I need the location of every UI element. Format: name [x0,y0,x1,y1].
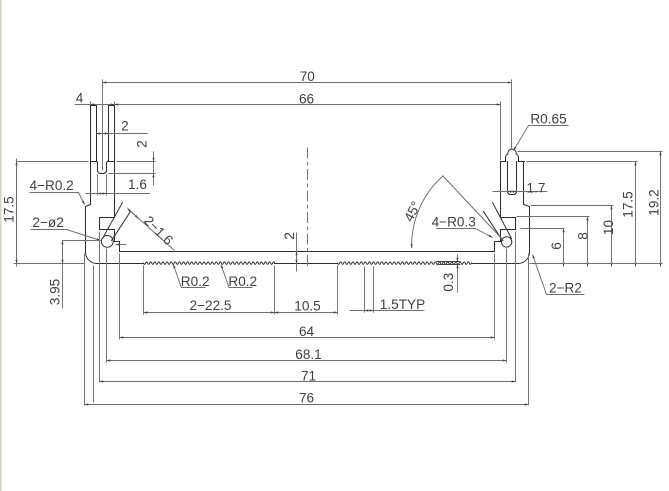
bottom outer edge right flat [472,263,518,265]
dimension 17.5 left line [16,159,18,267]
dimension 19.2 extension line [518,151,663,153]
bottom outer edge left flat [97,263,144,265]
left 45deg slot wall A [103,203,123,239]
svg-text:2−1.6: 2−1.6 [141,213,176,248]
dimension 2 pocket depth extension lines [109,162,156,174]
dimension 2-1.6 diagonal line with arrows [128,209,175,251]
right wall notch [501,218,516,241]
dimension 76 line [85,404,529,406]
left tongue top edge and screw slot [91,106,115,174]
leader 2-dia2 [31,230,101,241]
svg-text:8: 8 [576,232,591,240]
right 45deg slot wall B [484,212,503,241]
right 45deg slot wall A [493,203,512,239]
svg-text:2−22.5: 2−22.5 [190,298,232,313]
right screw slot under bump [508,162,517,195]
dimension 6 line [563,229,565,267]
leader 4-R0.3 [437,229,493,238]
svg-text:R0.2: R0.2 [181,274,210,289]
dimension 1.5TYP extension lines [365,267,374,313]
dimension 1.6 line [86,193,151,195]
dimension 17.5 left extension lines [14,162,89,264]
dimension 10 extension line [531,205,614,207]
left wall shoulder edge marks at 17.5 height [91,161,115,163]
dimension 64 line [120,337,495,339]
dimension 0.3 line [457,255,459,262]
bottom middle flat [275,263,338,265]
dimension 8 extension line [517,216,590,218]
center line dash-dot [307,148,309,268]
svg-text:76: 76 [299,391,314,406]
left 45deg slot wall B [112,212,131,241]
dimension 3.95 extension line [63,240,101,242]
dimension 71 extension lines [100,232,516,383]
dimension 2-22.5 and 10.5 line [144,312,338,314]
svg-text:71: 71 [301,368,316,383]
svg-text:R0.65: R0.65 [530,112,566,127]
svg-text:17.5: 17.5 [620,191,635,217]
dimension 68.1 line [107,360,507,362]
45 degree ray [443,176,504,241]
dimension 68.1 extension lines [107,249,507,363]
leader R0.2 second [221,265,253,288]
left ledge and step to floor [114,242,120,252]
svg-text:17.5: 17.5 [1,196,16,222]
svg-text:1.5TYP: 1.5TYP [380,297,425,312]
right snap bump with R0.65 tip [506,149,519,161]
svg-text:64: 64 [299,324,315,339]
svg-text:0.3: 0.3 [441,273,456,292]
dimension 8 line [587,217,589,267]
dimension 1.7 line [493,191,548,193]
dimension 70 extension lines [103,80,512,171]
leader 2-R2 [533,255,585,295]
hole 2-dia2 left [101,236,113,248]
svg-text:4: 4 [76,91,84,106]
svg-text:70: 70 [300,69,316,84]
svg-text:45°: 45° [401,199,424,224]
hole 2-dia2 right (slot rounded end) [501,237,511,247]
dimension 10 line [611,206,613,267]
dimension 3.95 line [62,241,64,309]
page edge stripe [0,0,2,491]
leader 4-R0.2 [30,193,85,205]
dimension 17.5 right extension line [527,161,638,163]
svg-text:2: 2 [134,140,149,148]
left wall notch [100,218,115,241]
left wall outer face with R0.2 step and R2 bottom corner [85,106,96,264]
dimension 1.6 extension lines [98,175,107,196]
dimension 70 line [103,82,512,84]
svg-text:66: 66 [299,91,314,106]
svg-text:19.2: 19.2 [646,189,661,215]
bottom knurled band left [144,262,275,265]
dimension 71 line [100,381,516,383]
45 degree arc [412,176,443,248]
right wall shoulder edges [501,161,525,163]
dimension 2 plate thickness line [296,233,298,272]
small arrow at hole right [116,244,127,246]
leader R0.2 first [173,265,205,288]
dimension 19.2 line [660,152,662,267]
svg-text:1.6: 1.6 [128,177,147,192]
dimension 1.5TYP line [350,310,425,312]
svg-text:68.1: 68.1 [295,347,321,362]
dimension 64 extension lines [120,254,495,340]
extension lines for 2-22.5/10.5 [144,266,338,315]
svg-text:2: 2 [282,232,297,240]
svg-text:4−R0.3: 4−R0.3 [432,214,476,229]
svg-text:6: 6 [549,242,564,250]
dimension 66 arrow left [115,104,120,106]
dimension 2 pocket depth vertical line [153,152,155,186]
svg-text:1.7: 1.7 [527,181,546,196]
svg-text:2−ø2: 2−ø2 [32,215,63,230]
svg-text:R0.2: R0.2 [228,274,257,289]
bottom knurled band right [338,262,472,265]
left wall inner face [114,106,116,218]
dimension 6 extension line [521,228,565,230]
dimension 66 arrow right [497,104,501,106]
dimension 4 arrows [91,104,115,106]
dimension 2 slot width line [97,133,148,135]
dimension 0.3 crest/trough marks [437,262,461,265]
svg-text:3.95: 3.95 [48,279,63,305]
svg-text:10.5: 10.5 [294,298,320,313]
svg-text:2: 2 [121,119,129,134]
dimension 4/66 extension lines [91,102,501,161]
svg-text:2−R2: 2−R2 [549,281,582,296]
right wall inner face [500,162,502,218]
leader R0.65 [514,126,569,151]
svg-text:4−R0.2: 4−R0.2 [30,178,74,193]
cavity floor [120,251,495,253]
dimension 17.5 right line [635,162,637,267]
dimension 66 and 4 line [75,104,501,106]
svg-text:10: 10 [601,220,616,236]
dimension 76 extension lines [85,254,529,406]
right wall outer face with R0.2 step and R2 bottom corner [518,162,530,264]
shared bottom extension line right [530,263,663,265]
right ledge and step to floor [495,242,502,252]
